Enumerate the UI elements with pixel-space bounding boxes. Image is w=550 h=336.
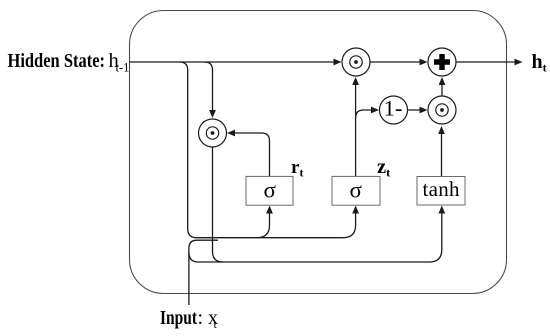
arrowhead: right into elementwise multiply [420, 107, 428, 114]
wire: input branch to candidate bus at y=262 [189, 209, 442, 263]
svg-text:Hidden State:: Hidden State: [8, 50, 106, 72]
wire: z branch right to 1- circle [356, 110, 377, 118]
arrowhead: up into add from below [439, 77, 446, 85]
GRU cell body (rounded rectangle) [130, 11, 507, 294]
arrowhead: up into tanh [438, 206, 445, 214]
box: reset gate sigma [246, 176, 293, 205]
svg-text:σ: σ [349, 178, 362, 203]
arrowhead: right into 1- circle [371, 107, 379, 114]
box: update gate sigma [332, 176, 380, 205]
svg-text:1-: 1- [384, 96, 403, 121]
wire: reset multiply output down, merging into candidate bus [213, 148, 224, 263]
wire: branch up from gates bus to r sigma input [257, 209, 270, 238]
node: add (circled plus) [428, 48, 456, 76]
wire: elementwise multiply up to add [441, 80, 443, 97]
wire: 1- output to elementwise multiply [408, 109, 426, 111]
node: candidate elementwise multiply (circled dot) [428, 96, 456, 124]
arrowhead: up into r sigma [266, 206, 273, 214]
arrowhead: into add from left [420, 59, 428, 66]
arrowhead: output h(t) [515, 59, 523, 66]
wire: branch down at x=212 into reset multiply [205, 62, 213, 116]
arrowhead: into update multiply (h line) [334, 59, 342, 66]
svg-text:σ: σ [263, 178, 276, 203]
wire: tanh output up to elementwise multiply [441, 129, 443, 177]
svg-text:t-1: t-1 [116, 61, 130, 75]
node: update elementwise multiply on h line (circled dot) [342, 48, 370, 76]
wire: input x(t) vertical up, elbow merging into gates bus [189, 240, 218, 305]
wire: z sigma output up to update multiply [355, 80, 357, 177]
svg-text:Input: Input [160, 307, 197, 329]
node: 1- circle [380, 96, 408, 125]
node: reset elementwise multiply (circled dot) [199, 119, 227, 147]
arrowhead: up into elementwise multiply from tanh [438, 126, 445, 134]
box: tanh [417, 177, 465, 206]
arrowhead: left into reset multiply from r sigma [227, 130, 235, 137]
arrowhead: down into reset multiply [209, 110, 216, 118]
arrowhead: up into z sigma [352, 206, 359, 214]
arrowhead: up into update multiply from z [352, 77, 359, 85]
wire: branch down at x=188 to gates bus, then to z sigma input [180, 62, 356, 238]
wire: update multiply to add [370, 61, 425, 63]
wire: add output to h(t) [456, 61, 519, 63]
wire: r sigma output up and left to reset multiply [230, 133, 270, 177]
svg-text:tanh: tanh [423, 177, 461, 201]
wire: hidden state line h(t-1) into cell [130, 61, 338, 63]
